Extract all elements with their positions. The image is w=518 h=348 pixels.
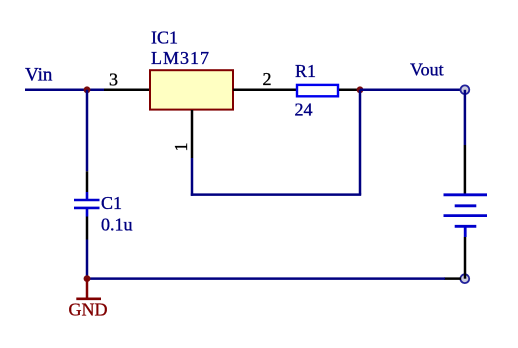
svg-text:IC1: IC1	[151, 28, 178, 48]
wire bottom rail (navy)	[87, 277, 445, 280]
svg-text:LM317: LM317	[151, 48, 210, 68]
wire battery top pin (black)	[464, 145, 467, 195]
wire IC pin3 (black)	[104, 89, 150, 92]
battery bottom stub (blue)	[464, 226, 467, 237]
svg-text:Vin: Vin	[25, 65, 53, 86]
wire C1 bottom pin (black)	[86, 217, 89, 240]
ground bar	[76, 297, 101, 300]
wire Vin horizontal (navy)	[25, 89, 105, 92]
op-amp regulator IC1 body	[150, 70, 233, 109]
wire left vertical lower (navy)	[86, 240, 89, 279]
svg-text:C1: C1	[101, 193, 122, 213]
resistor R1 body	[297, 85, 338, 96]
svg-text:24: 24	[295, 100, 313, 120]
svg-text:1: 1	[171, 143, 191, 152]
terminal Vout	[461, 85, 470, 94]
svg-text:2: 2	[263, 69, 272, 89]
svg-text:R1: R1	[295, 61, 316, 81]
svg-text:Vout: Vout	[410, 59, 444, 79]
wire feedback vertical right (navy)	[359, 90, 362, 195]
capacitor C1 bottom stub (blue)	[86, 208, 89, 217]
battery plate short bottom	[455, 225, 477, 228]
terminal bottom	[460, 274, 469, 283]
svg-text:0.1u: 0.1u	[101, 215, 133, 235]
wire bottom terminal pin left (black)	[444, 277, 461, 280]
wire C1 top pin (black)	[86, 171, 89, 192]
wire junction to Vout terminal (navy)	[360, 89, 462, 92]
wire left vertical upper (navy)	[86, 90, 89, 172]
wire IC pin1 down (black)	[191, 110, 194, 158]
node Vin junction	[84, 86, 91, 93]
wire battery bottom pin (black)	[464, 237, 467, 279]
node ground junction	[84, 275, 91, 282]
node R1 output junction	[357, 86, 364, 93]
capacitor C1 plate bottom	[74, 207, 100, 210]
battery plate short	[455, 204, 477, 207]
capacitor C1 plate top	[74, 199, 100, 202]
wire IC pin2 (black)	[233, 89, 296, 92]
wire terminal down (navy)	[464, 90, 467, 145]
wire feedback vertical left (navy)	[191, 158, 194, 196]
svg-text:GND: GND	[69, 300, 108, 320]
wire R1 right pin (black)	[339, 89, 361, 92]
ground stub	[86, 279, 89, 299]
battery BT1 plate long top	[444, 193, 488, 196]
battery plate long bottom	[444, 214, 488, 217]
capacitor C1 top stub (blue)	[86, 192, 89, 200]
wire feedback bottom horizontal (navy)	[191, 193, 361, 196]
svg-text:3: 3	[109, 69, 118, 89]
